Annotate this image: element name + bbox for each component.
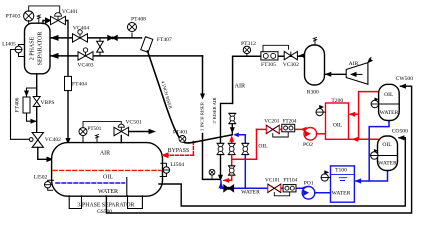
svg-text:FT104: FT104 [283,178,297,184]
level instrument LI405 [2,41,24,56]
arrow air down into J1 [230,127,235,133]
svg-text:OIL: OIL [103,175,113,181]
control valve VC101 [265,178,281,193]
arrow water flow at PO1 [300,186,307,191]
svg-text:PO1: PO1 [304,180,314,186]
control valve VC402 [29,133,61,148]
pipe oil bypass down to J2 [224,175,232,180]
svg-text:T100: T100 [335,168,347,174]
pipe oil line VC201-PO2 [257,128,305,130]
control valve VC401 [43,9,78,25]
svg-text:GS500: GS500 [97,209,112,215]
svg-text:OIL: OIL [384,92,394,98]
vessel CO500 [378,128,409,170]
instrument on CO500 [371,150,378,160]
wire VC201 to FT204 [273,132,288,137]
red arrow oil up into J1 [229,135,234,142]
flow meter FT104 [283,178,298,192]
svg-text:VC401: VC401 [62,9,78,15]
arrow vent [149,129,157,135]
svg-text:WATER: WATER [98,189,118,195]
svg-text:2' RISER AIR: 2' RISER AIR [212,97,217,124]
pump PO1 [302,180,315,199]
control valve VC201 [264,119,279,134]
check valve on 4-inch line [108,35,118,40]
compressor [346,58,373,85]
pipe VC501 vent [129,131,150,133]
wire FT305 to VC302 [263,45,289,51]
svg-text:FT406: FT406 [15,97,21,112]
svg-text:FT407: FT407 [157,37,172,43]
pipe CO500 bottom to T100 [369,171,387,182]
svg-text:PT401: PT401 [173,129,188,135]
control valve VC501 [114,120,142,143]
tank T100 [331,166,355,202]
relief device on 3-phase separator [96,134,99,142]
arrow on oil line to CO500 [352,137,359,142]
arrow into R300 [325,72,332,77]
pipe 2 INCH RISER vertical [202,56,204,96]
wire VC101 to FT104 [274,191,289,196]
flow element FT404 [65,76,88,90]
pipe water down to main [244,155,246,189]
svg-text:PT408: PT408 [131,17,146,23]
pipe oil to CO500 [349,114,378,139]
wire VC401 outlet down to FT404 [66,21,69,77]
arrow oil flow at PO2 [300,127,307,132]
pipe separator water outlet to CW500 [106,86,411,213]
pipe oil riser feed [231,155,233,166]
pipe VC402 to 3-phase separator [38,147,52,159]
svg-text:CW500: CW500 [396,76,414,82]
svg-text:LI405: LI405 [2,41,16,47]
level instrument LI502 [34,174,54,190]
control valve VC403 [77,48,93,69]
pipe 2-inch line y=55.9 [50,55,202,57]
flow meter FT305 [261,52,278,68]
tank T200 [326,98,349,139]
pipe oil supply from VC201 [232,129,257,159]
pipe compressor to R300 [325,73,347,75]
svg-text:PT403: PT403 [6,14,21,20]
svg-text:OIL: OIL [333,122,343,128]
svg-text:FT404: FT404 [72,82,87,88]
red arrow into J2 [223,178,229,183]
svg-text:FT305: FT305 [261,62,276,68]
signal wire PT403 to VC401 [29,6,60,13]
svg-text:VC101: VC101 [265,178,280,184]
instrument PT401 [173,129,188,142]
flow element FT406 [15,97,31,113]
svg-text:VC403: VC403 [77,63,93,69]
arrow into vessel (2-inch) [50,53,58,59]
arrow down into FT406 [24,91,29,97]
branch to FT406 [27,88,37,97]
weir plate [126,178,128,196]
vessel CW500 [379,76,414,121]
pipe water return CW500/CO500 to T100 [356,121,389,182]
pipe PO1 suction [315,192,331,194]
svg-text:PT312: PT312 [241,41,256,47]
arrow down into J2 [218,175,223,181]
svg-text:AIR: AIR [349,61,359,67]
wire LI405 loop to VC402 [11,50,30,140]
svg-text:PO2: PO2 [303,142,313,148]
svg-text:2 INCH RISER: 2 INCH RISER [199,101,204,131]
wire FT404 down to 3-phase separator [67,91,69,144]
svg-text:VC404: VC404 [73,26,89,32]
svg-text:VC402: VC402 [45,137,61,143]
arrow down on 2 inch riser [200,94,205,100]
level switch on T200 [316,106,326,116]
wire FT406 rejoin [27,113,37,121]
pipe 4 INCH RISER curve [148,51,233,143]
instrument PT403 [6,11,34,23]
control valve VC404 [73,26,90,43]
pipe 2 inch riser lower [203,134,220,180]
svg-text:CO500: CO500 [392,128,408,134]
arrow into vessel (4-inch) [50,35,58,41]
instrument PT501 [79,126,102,142]
branch air to 2-inch riser [221,103,233,143]
vessel 2 PHASE SEPARATOR [25,23,51,74]
arrow into CW500 top [399,84,406,89]
svg-text:R300: R300 [307,90,319,96]
svg-text:FT204: FT204 [283,119,297,125]
pipe PO2 suction [317,133,325,135]
pipe air header [233,56,305,103]
instrument PT312 [241,41,256,56]
instrument on 2-inch riser base [209,169,215,179]
svg-text:WATER: WATER [380,110,399,116]
svg-text:OIL: OIL [382,142,392,148]
relief device on R300 [314,37,317,45]
svg-text:VBPS: VBPS [41,100,55,106]
arrow into CO500 top [398,135,405,140]
flow element FT407 (inclined) [141,37,153,53]
blue arrow water into J1 [233,133,239,138]
svg-text:OIL: OIL [258,144,268,150]
vessel legs [69,196,81,209]
svg-text:WATER: WATER [241,190,260,196]
pipe separator oil outlet to CO500 [159,138,405,206]
svg-text:WATER: WATER [378,161,397,167]
arrow right rejoin [31,119,37,124]
signal wire PT501 to VC501 [83,122,121,128]
pipe vessel bottom drain [36,74,38,96]
svg-text:VC201: VC201 [264,119,279,125]
svg-text:2 PHASE: 2 PHASE [30,36,36,60]
svg-text:LI502: LI502 [34,174,48,180]
svg-text:VC302: VC302 [283,62,299,68]
valve manifold row: right (water) [242,143,249,154]
valve oil bypass to J2 [228,166,235,176]
svg-text:AIR: AIR [100,151,110,157]
valve VBPS [33,97,54,133]
check valve water main [224,185,234,192]
svg-text:LI504: LI504 [171,162,185,168]
svg-text:PT501: PT501 [88,126,102,132]
vessel 3-PHASE SEPARATOR GS500 [52,143,163,197]
flow meter FT204 [282,119,297,132]
pipe water main to VC101 [280,187,302,189]
instrument on CW500 [371,98,378,108]
svg-text:SEPARATOR: SEPARATOR [38,32,44,66]
control valve VC302 [283,51,299,67]
svg-text:BYPASS: BYPASS [168,148,189,154]
level switch on T100 [321,171,330,181]
valve between 4-inch and 2-inch lines [97,38,104,56]
pipe water main [221,187,268,189]
valve on air line above J1 [229,113,236,124]
pump PO2 [303,128,317,149]
valve manifold row: middle (oil) [228,143,235,154]
oil level dashed line [53,169,161,171]
arrow air flow to VC302 [298,53,305,58]
arrow water return into T100 [355,178,362,183]
arrow into 3-phase separator [47,157,54,163]
pipe oil return CW500 to T200 [351,92,379,115]
level instrument LI504 [160,162,184,177]
instrument PT408 [128,17,147,38]
vessel R300 [305,45,325,96]
svg-text:VC501: VC501 [126,120,142,126]
water level dashed line [56,182,124,184]
svg-text:AIR: AIR [235,82,247,89]
svg-text:WATER: WATER [332,190,351,196]
arrow oil return into T200 [349,112,356,117]
pipe air line to J1 [231,124,233,135]
valve manifold row: left (2-inch riser air) [217,143,224,154]
pipe 4-inch inlet line y=37.9 [50,37,141,39]
node J2 / blue arrow up [220,181,222,188]
pipe 2-inch air down to J2 [220,155,222,180]
BYPASS red dashed line [161,142,193,159]
svg-text:T200: T200 [331,98,343,104]
relief device on vessel top [37,15,40,23]
